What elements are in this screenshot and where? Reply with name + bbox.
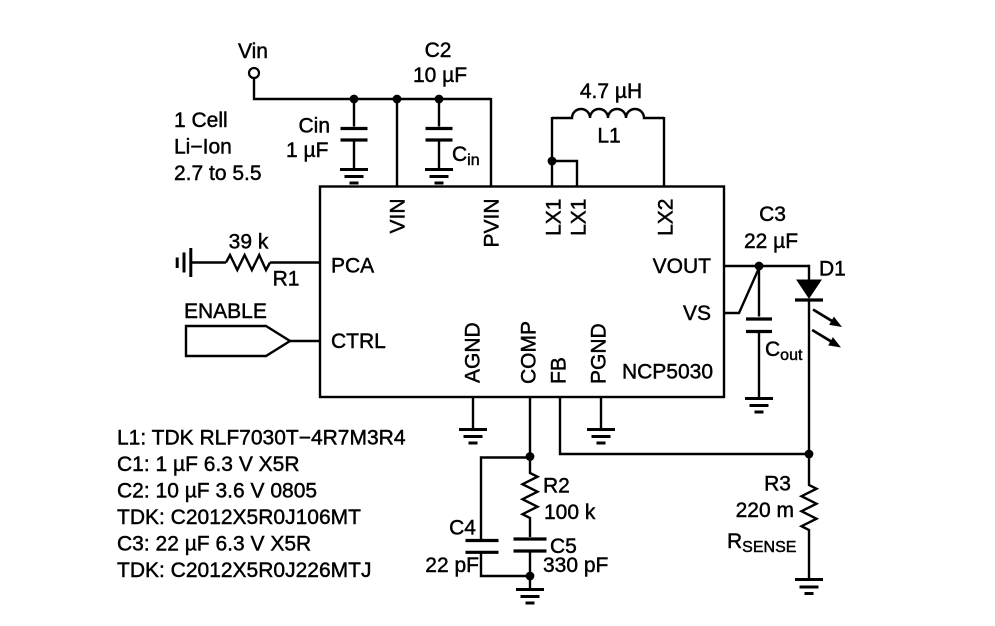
svg-text:C3: C3 (759, 203, 786, 226)
wire R1 to PCA (270, 261, 321, 263)
wire VS diagonal (724, 268, 759, 313)
node junction dot sense (805, 450, 814, 459)
svg-text:39 k: 39 k (229, 231, 269, 254)
ground below R3 (795, 580, 823, 594)
svg-text:PVIN: PVIN (481, 199, 504, 248)
ground below C5 (516, 590, 544, 604)
wire VIN drop (396, 99, 398, 187)
wire LX1 left leg (551, 117, 553, 187)
ground for C2 (425, 170, 453, 184)
ground PGND (600, 397, 602, 428)
ground for Cin (340, 170, 368, 184)
wire PVIN drop (490, 98, 492, 187)
svg-text:ENABLE: ENABLE (184, 300, 267, 323)
svg-text:LX1: LX1 (543, 199, 566, 236)
svg-text:C1: 1 µF 6.3 V X5R: C1: 1 µF 6.3 V X5R (117, 453, 300, 476)
svg-text:D1: D1 (819, 258, 846, 281)
node junction dot A (350, 95, 359, 104)
svg-text:Cin: Cin (298, 115, 330, 138)
svg-text:LX1: LX1 (568, 199, 591, 236)
svg-text:C4: C4 (449, 517, 476, 540)
node junction dot VOUT (755, 262, 764, 271)
node Vin terminal (249, 68, 259, 78)
svg-text:22 pF: 22 pF (425, 554, 479, 577)
svg-text:2.7 to 5.5: 2.7 to 5.5 (174, 162, 262, 185)
wire VOUT rail (724, 265, 809, 267)
svg-text:LX2: LX2 (655, 199, 678, 236)
node junction dot LX1 (548, 157, 557, 166)
svg-text:CTRL: CTRL (331, 330, 386, 353)
svg-text:22 µF: 22 µF (744, 230, 798, 253)
wire ground to R1 (192, 261, 226, 263)
wire C4 branch top (481, 458, 530, 540)
svg-text:330 pF: 330 pF (543, 554, 608, 577)
svg-text:Li−Ion: Li−Ion (174, 136, 232, 159)
svg-text:VOUT: VOUT (653, 255, 712, 278)
wire LX1 second leg jog (552, 161, 577, 187)
node junction dot C (435, 95, 444, 104)
svg-text:VS: VS (683, 302, 711, 325)
node junction dot B (393, 95, 402, 104)
svg-text:1 Cell: 1 Cell (174, 109, 228, 132)
svg-text:C2: C2 (425, 39, 452, 62)
svg-text:TDK: C2012X5R0J226MTJ: TDK: C2012X5R0J226MTJ (117, 559, 371, 582)
svg-text:C2: 10 µF 3.6 V 0805: C2: 10 µF 3.6 V 0805 (117, 480, 317, 503)
wire COMP down (529, 397, 531, 470)
svg-text:Vin: Vin (238, 40, 268, 63)
svg-text:L1: L1 (597, 125, 620, 148)
ground for Cout (745, 399, 773, 413)
wire FB to sense node (560, 397, 809, 454)
svg-text:FB: FB (548, 357, 571, 384)
svg-text:R2: R2 (543, 475, 570, 498)
ground AGND (472, 397, 474, 428)
node junction dot C5 bottom (526, 572, 535, 581)
ground left of R1 (sideways) (177, 248, 191, 277)
LED arrow 1 (813, 310, 842, 328)
LED arrow 2 (812, 330, 841, 348)
svg-text:AGND: AGND (462, 322, 485, 383)
wire Vin to top rail (254, 78, 491, 99)
svg-text:C3: 22 µF 6.3 V X5R: C3: 22 µF 6.3 V X5R (117, 533, 311, 556)
svg-text:R3: R3 (764, 473, 791, 496)
svg-text:R1: R1 (273, 268, 300, 291)
svg-text:TDK: C2012X5R0J106MT: TDK: C2012X5R0J106MT (117, 506, 361, 529)
wire ENABLE to CTRL (290, 340, 321, 342)
svg-text:COMP: COMP (518, 321, 541, 384)
capacitor Cin 1 uF (353, 99, 355, 127)
wire LX2 right leg (663, 117, 665, 187)
op-amp U1 NCP5030 IC body (320, 187, 724, 398)
svg-text:220 m: 220 m (736, 499, 794, 522)
svg-text:100 k: 100 k (544, 501, 596, 524)
capacitor Cout (758, 266, 760, 317)
node junction dot COMP (526, 452, 535, 461)
svg-text:PGND: PGND (588, 323, 611, 384)
svg-text:L1: TDK RLF7030T−4R7M3R4: L1: TDK RLF7030T−4R7M3R4 (117, 427, 406, 450)
svg-text:1 µF: 1 µF (286, 139, 328, 162)
svg-text:4.7 µH: 4.7 µH (580, 80, 642, 103)
svg-text:NCP5030: NCP5030 (622, 361, 713, 384)
svg-text:10 µF: 10 µF (413, 64, 467, 87)
svg-text:PCA: PCA (331, 255, 374, 278)
capacitor C5 330 pF (514, 537, 547, 540)
svg-text:VIN: VIN (387, 199, 410, 234)
